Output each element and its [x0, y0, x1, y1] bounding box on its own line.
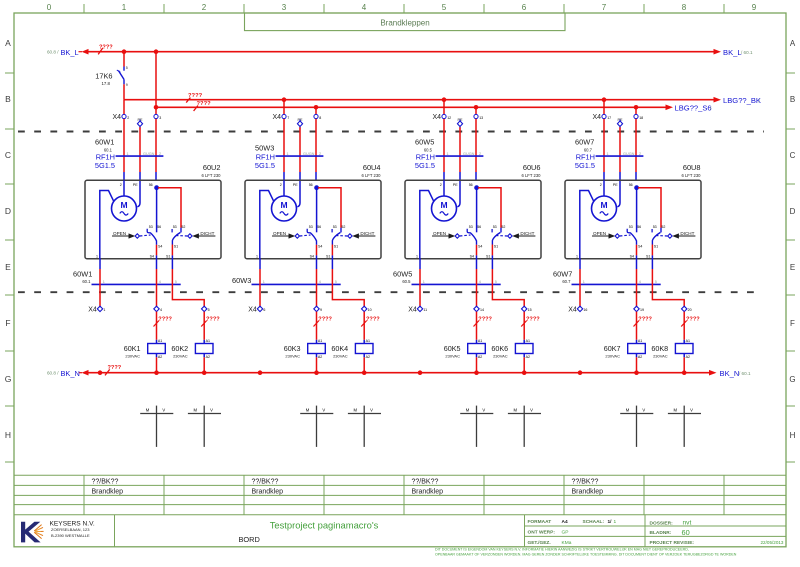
svg-text:6 LFT 230: 6 LFT 230 [361, 173, 381, 178]
wire red X4 to cable entry (motor conductor) [123, 119, 125, 172]
wire red motor return to X4:16 [579, 269, 581, 307]
junction dot bus LBG??_S6 unit 4 [634, 105, 639, 110]
junction dot BK_N (return 1) [98, 370, 103, 375]
svg-text:A1: A1 [318, 339, 322, 343]
svg-text:5G1.5: 5G1.5 [255, 161, 275, 170]
svg-text:X4: X4 [568, 307, 577, 314]
end switch right (dicht) pins 53-52-S1 [172, 225, 185, 248]
block pin labels 2 PE S6 [440, 183, 473, 187]
svg-text:5G1.5: 5G1.5 [95, 161, 115, 170]
svg-text:Brandklep: Brandklep [572, 489, 604, 496]
svg-text:14: 14 [480, 308, 484, 312]
svg-text:0: 0 [47, 3, 52, 12]
svg-text:S1: S1 [166, 255, 170, 259]
svg-text:Brandklep: Brandklep [92, 489, 124, 496]
svg-text:A1: A1 [478, 339, 482, 343]
svg-text:BORD: BORD [239, 535, 260, 544]
svg-text:5: 5 [208, 308, 210, 312]
wire blue stub pin A2 (60K1) [156, 354, 158, 358]
contact cross-reference symbol under 60K8 [668, 406, 701, 447]
svg-text:60K6: 60K6 [491, 344, 508, 353]
cable type RF1H 5G1.5 [255, 153, 275, 171]
svg-text:52: 52 [501, 225, 505, 229]
wire red S1 pin segment [331, 245, 333, 256]
svg-text:??/BK??: ??/BK?? [572, 479, 599, 486]
wire blue S1 through block edge [651, 255, 653, 269]
interruption mark ???? on bus LBG??_S6 [194, 101, 212, 111]
end switch right (dicht) pins 53-52-S1 [492, 225, 505, 248]
svg-text:G: G [789, 375, 795, 384]
svg-text:M: M [626, 407, 630, 412]
OPEN actuator arrow [432, 231, 471, 239]
OPEN actuator arrow [592, 231, 631, 239]
svg-text:????: ???? [686, 317, 700, 323]
svg-text:????: ???? [526, 317, 540, 323]
junction dot BK_N (return 6) [258, 370, 263, 375]
net label right BK_L / 60.1 [723, 48, 753, 57]
wire red PE conductor below terminal [459, 127, 461, 172]
svg-text:BK_N: BK_N [61, 369, 80, 378]
title block vertical dividers [115, 515, 646, 547]
svg-text:S4: S4 [150, 255, 154, 259]
wire red X4 to cable entry (motor conductor) [283, 119, 285, 172]
wire blue S1 through block edge [171, 255, 173, 269]
strip entry ??/BK?? Brandklep 3 [412, 479, 444, 496]
svg-text:2: 2 [479, 152, 481, 156]
svg-text:2: 2 [319, 152, 321, 156]
svg-text:56: 56 [629, 183, 633, 187]
svg-text:PE: PE [453, 183, 458, 187]
svg-text:A2: A2 [318, 355, 322, 359]
wire red motor return to X4:11 [419, 269, 421, 307]
wire red S1 jog to X4:10 [332, 269, 364, 307]
svg-text:PE: PE [293, 183, 298, 187]
svg-text:????: ???? [638, 317, 652, 323]
svg-text:A1: A1 [206, 339, 210, 343]
source arrow left BK_L [79, 49, 89, 55]
contact cross-reference symbol under 60K6 [508, 406, 541, 447]
net label right LBG??_BK [723, 96, 761, 105]
wire red S4 to X4:9 [316, 269, 318, 307]
svg-text:M: M [280, 200, 287, 210]
block bottom pin labels S4 S1 [630, 255, 651, 259]
svg-text:A1: A1 [158, 339, 162, 343]
svg-text:C: C [5, 150, 11, 160]
wire blue S4 through block edge [156, 255, 158, 269]
svg-text:53: 53 [333, 225, 337, 229]
svg-text:S4: S4 [638, 245, 642, 249]
net label left 60.8 / BK_N [47, 369, 80, 378]
junction dot BK_N (60K3) [314, 370, 319, 375]
coil 60K7 230VAC [604, 339, 646, 359]
svg-text:SCHAAL:: SCHAAL: [583, 519, 605, 525]
wire blue stub pin A2 (60K7) [636, 354, 638, 358]
terminal X4:4 [154, 306, 162, 312]
svg-text:5: 5 [442, 3, 447, 12]
junction dot bus LBG??_S6 unit 3 [474, 105, 479, 110]
svg-text:4: 4 [159, 280, 161, 284]
cable line top 60W7 [596, 155, 644, 157]
svg-text:1: 1 [576, 254, 578, 258]
svg-text:DIT DOCUMENT IS EIGENDOM VAN K: DIT DOCUMENT IS EIGENDOM VAN KEYSERS N.V… [435, 548, 689, 552]
interruption mark ???? above 60K3 [314, 317, 333, 327]
svg-text:A2: A2 [158, 355, 162, 359]
terminal X4:7 [272, 114, 289, 121]
svg-text:S4: S4 [158, 245, 162, 249]
wire bus LBG??_S6 [156, 106, 666, 108]
svg-text:S1: S1 [654, 245, 658, 249]
svg-text:????: ???? [478, 317, 492, 323]
cable line top 50W3 [276, 155, 324, 157]
svg-text:A4: A4 [562, 519, 568, 525]
wire red X4 to interruption (60K5) [476, 312, 478, 340]
wire red S1 jog to X4:15 [492, 269, 524, 307]
svg-text:D: D [5, 206, 11, 216]
wire blue motor return hook to pin 1 [580, 191, 594, 259]
wire blue stub pin A1 (60K3) [316, 340, 318, 344]
svg-text:BK_N: BK_N [720, 369, 740, 378]
svg-text:3: 3 [159, 116, 161, 120]
junction dot S6 inside block [314, 185, 319, 190]
target arrow right BK_N [709, 370, 717, 376]
company logo K (Keysers) [21, 522, 44, 543]
svg-text:60W5: 60W5 [415, 137, 434, 146]
svg-text:60K1: 60K1 [124, 344, 141, 353]
svg-text:GUGN: GUGN [143, 152, 155, 156]
side ruler row ticks [5, 73, 795, 462]
svg-text:8: 8 [682, 3, 687, 12]
svg-text:????: ???? [108, 365, 122, 371]
block pin labels 2 PE S6 [600, 183, 633, 187]
cable conductor labels top [287, 152, 322, 156]
terminal X4:13 [474, 114, 483, 119]
svg-text:S4: S4 [310, 255, 314, 259]
wire red X4 to interruption (60K7) [636, 312, 638, 340]
interruption mark ???? on BK_N [105, 365, 122, 375]
svg-text:OPENBAAR GEMAAKT OF VERZONDEN: OPENBAAR GEMAAKT OF VERZONDEN WORDEN. MA… [435, 552, 737, 556]
svg-text:7: 7 [602, 3, 607, 12]
svg-text:LBG??_BK: LBG??_BK [723, 96, 761, 105]
svg-text:M: M [600, 200, 607, 210]
svg-text:F: F [790, 319, 795, 328]
wire red bus to X4 terminal 7 [283, 100, 285, 115]
svg-text:56: 56 [469, 183, 473, 187]
DICHT actuator arrow [656, 231, 695, 239]
svg-text:2: 2 [202, 3, 207, 12]
svg-text:20: 20 [688, 308, 692, 312]
svg-text:S4: S4 [630, 255, 634, 259]
svg-text:230VAC: 230VAC [333, 354, 348, 359]
svg-text:GUGN: GUGN [463, 152, 475, 156]
wire blue stub pin A2 (60K2) [203, 354, 205, 358]
damper actuator block 60U6 [405, 163, 541, 259]
svg-text:H: H [790, 431, 796, 440]
svg-text:E: E [5, 262, 11, 272]
svg-text:GUGN: GUGN [623, 152, 635, 156]
svg-text:M: M [513, 407, 517, 412]
junction dot BK_N (60K7) [634, 370, 639, 375]
motor M~ of 60U2 [112, 196, 137, 221]
wire blue stub pin A1 (60K1) [156, 340, 158, 344]
wire bus BK_L [88, 51, 714, 53]
svg-text:7: 7 [287, 116, 289, 120]
wire blue motor return below block [579, 259, 581, 270]
wire red X4 to cable entry (S6 conductor) [155, 119, 157, 172]
svg-text:1: 1 [103, 280, 105, 284]
DICHT actuator arrow [336, 231, 375, 239]
svg-text:1: 1 [447, 152, 449, 156]
end switch right (dicht) pins 53-52-S1 [652, 225, 665, 248]
wire bus BK_N [88, 372, 710, 374]
wire blue into block pin S6 [315, 172, 317, 180]
interruption mark ???? above 60K1 [154, 317, 173, 327]
svg-text:BLADNR:: BLADNR: [650, 530, 672, 536]
wire blue into block pin 2 [283, 172, 285, 180]
junction dot BK_N (60K5) [474, 370, 479, 375]
svg-text:S4: S4 [478, 245, 482, 249]
svg-text:F: F [5, 318, 10, 328]
svg-text:BK_L: BK_L [723, 48, 742, 57]
svg-text:10: 10 [368, 308, 372, 312]
svg-text:????: ???? [197, 101, 212, 107]
svg-text:4: 4 [319, 280, 321, 284]
target arrow right LBG??_BK [714, 97, 722, 103]
svg-text:OPEN: OPEN [113, 231, 126, 236]
svg-text:1: 1 [423, 280, 425, 284]
svg-text:A1: A1 [526, 339, 530, 343]
wire red motor return to X4:6 [259, 269, 261, 307]
svg-text:1: 1 [614, 519, 617, 525]
svg-text:FORMAAT: FORMAAT [528, 519, 552, 525]
target arrow right LBG??_S6 [666, 105, 674, 111]
junction dot BK_N (60K1) [154, 370, 159, 375]
wire blue into block pin 2 [443, 172, 445, 180]
wire red bus to X4 terminal 18 [635, 107, 637, 114]
svg-text:Testproject paginamacro's: Testproject paginamacro's [270, 519, 379, 530]
svg-text:OPEN: OPEN [273, 231, 286, 236]
wire blue S4 through block edge [636, 255, 638, 269]
cable conductor labels top [607, 152, 642, 156]
svg-text:5: 5 [335, 280, 337, 284]
wire blue stub pin A2 (60K4) [363, 354, 365, 358]
wire blue stub pin A1 (60K8) [683, 340, 685, 344]
svg-text:GUGN: GUGN [303, 152, 315, 156]
cable label bottom 60W1 [73, 270, 92, 285]
block pin labels 2 PE S6 [280, 183, 313, 187]
svg-text:60W1: 60W1 [95, 137, 114, 146]
title block row lines right part [525, 526, 787, 536]
wire blue into block pin 2 [123, 172, 125, 180]
contact cross-reference symbol under 60K5 [460, 406, 493, 447]
svg-text:M: M [353, 407, 357, 412]
end switch left (open) pins 53-56-S4 [467, 225, 482, 248]
svg-text:DICHT: DICHT [680, 231, 694, 236]
cable label bottom 60W7 [553, 270, 572, 285]
interruption mark ???? on bus LBG??_BK [186, 93, 202, 103]
wire red S1 pin segment [491, 245, 493, 256]
svg-text:A: A [5, 38, 11, 48]
svg-text:19: 19 [640, 308, 644, 312]
title field BLADNR 60 [650, 528, 690, 537]
wire blue S6 junction down to left switch [636, 188, 638, 233]
block bottom pin labels S4 S1 [310, 255, 331, 259]
svg-text:nvt: nvt [683, 519, 692, 526]
wire blue stub pin A1 (60K4) [363, 340, 365, 344]
svg-text:S4: S4 [318, 245, 322, 249]
svg-text:60W7: 60W7 [553, 270, 572, 279]
contact cross-reference symbol under 60K1 [140, 406, 173, 447]
wire red PE conductor below terminal [299, 127, 301, 172]
svg-text:A2: A2 [206, 355, 210, 359]
coil 60K8 230VAC [651, 339, 693, 359]
svg-text:2: 2 [120, 183, 122, 187]
strip entry ??/BK?? Brandklep 2 [252, 479, 284, 496]
wire blue stub pin A2 (60K5) [476, 354, 478, 358]
svg-text:230VAC: 230VAC [285, 354, 300, 359]
svg-text:56: 56 [637, 225, 641, 229]
svg-text:17: 17 [607, 116, 611, 120]
cable conductor labels bottom [263, 280, 337, 284]
terminal X4:20 [682, 306, 692, 312]
svg-text:60U2: 60U2 [203, 163, 221, 172]
block bottom pin labels S4 S1 [470, 255, 491, 259]
company name KEYSERS N.V. [50, 520, 95, 538]
svg-text:A2: A2 [638, 355, 642, 359]
junction dot BK_N (60K6) [522, 370, 527, 375]
wire blue PE conductor to motor [617, 172, 620, 207]
svg-text:60.8 /: 60.8 / [47, 371, 59, 376]
block pin labels 2 PE S6 [120, 183, 153, 187]
svg-text:S1: S1 [646, 255, 650, 259]
svg-text:X4: X4 [272, 114, 281, 121]
coil 60K1 230VAC [124, 339, 166, 359]
wire red S6 junction to right switch [638, 188, 661, 228]
cable label 60W1 [95, 137, 114, 152]
wire blue S4 through block edge [476, 255, 478, 269]
end switch right (dicht) pins 53-52-S1 [332, 225, 345, 248]
svg-text:56: 56 [317, 225, 321, 229]
cable line bottom 60W5 [412, 283, 501, 285]
strip entry ??/BK?? Brandklep 1 [92, 479, 124, 496]
wire blue stub pin A2 (60K8) [683, 354, 685, 358]
interruption mark ???? above 60K7 [634, 317, 653, 327]
svg-text:A1: A1 [366, 339, 370, 343]
wire blue PE conductor to motor [297, 172, 300, 207]
wire red 60K3 to bus BK_N [316, 357, 318, 372]
cable label 50W3 [255, 144, 274, 153]
svg-text:5G1.5: 5G1.5 [575, 161, 595, 170]
wire red X4 to interruption (60K4) [363, 312, 365, 340]
svg-text:53: 53 [629, 225, 633, 229]
svg-text:X4: X4 [592, 114, 601, 121]
svg-text:OPEN: OPEN [593, 231, 606, 236]
target arrow right BK_L [714, 49, 722, 55]
svg-text:56: 56 [157, 225, 161, 229]
cable conductor labels top [127, 152, 162, 156]
junction dot BK_N (60K8) [682, 370, 687, 375]
svg-text:56: 56 [149, 183, 153, 187]
svg-text:1: 1 [416, 254, 418, 258]
svg-text:60W1: 60W1 [73, 270, 92, 279]
terminal PE diamond [617, 118, 623, 130]
svg-text:Brandkleppen: Brandkleppen [380, 18, 429, 27]
svg-text:5G1.5: 5G1.5 [415, 161, 435, 170]
svg-text:S4: S4 [470, 255, 474, 259]
interruption mark ???? above 60K6 [521, 317, 540, 327]
svg-text:1: 1 [103, 308, 105, 312]
svg-text:17K6: 17K6 [95, 72, 112, 81]
svg-text:H: H [5, 430, 11, 440]
svg-text:2: 2 [600, 183, 602, 187]
wire blue S6 junction down to left switch [156, 188, 158, 233]
svg-text:DOSSIER:: DOSSIER: [650, 520, 674, 526]
wire blue pin 2 to motor [283, 180, 285, 196]
terminal X4:19 [634, 306, 644, 312]
svg-text:2: 2 [127, 116, 129, 120]
interruption mark ???? above 60K4 [361, 317, 380, 327]
svg-text:13: 13 [479, 116, 483, 120]
svg-text:??/BK??: ??/BK?? [252, 479, 279, 486]
svg-text:6 LFT 230: 6 LFT 230 [681, 173, 701, 178]
wire red S4 to X4:4 [156, 269, 158, 307]
svg-text:22/05/2013: 22/05/2013 [761, 540, 784, 545]
svg-text:4: 4 [479, 280, 481, 284]
title field PROJECT REVISIE + date [650, 540, 784, 546]
wire red 60K7 to bus BK_N [636, 357, 638, 372]
svg-text:V: V [210, 407, 213, 412]
wire blue motor return below block [99, 259, 101, 270]
svg-text:1: 1 [256, 254, 258, 258]
wire red bus to X4 terminal 13 [475, 107, 477, 114]
wire blue into block pin S6 [155, 172, 157, 180]
terminal X4:8 [314, 114, 321, 119]
svg-text:A2: A2 [478, 355, 482, 359]
wire red X4 to cable entry (S6 conductor) [635, 119, 637, 172]
coil 60K2 230VAC [171, 339, 213, 359]
svg-text:????: ???? [188, 93, 203, 99]
svg-text:??/BK??: ??/BK?? [412, 479, 439, 486]
interruption mark ???? on BK_L [98, 45, 113, 55]
wire blue stub pin A1 (60K7) [636, 340, 638, 344]
svg-text:/ 60.1: / 60.1 [739, 371, 751, 376]
junction dot S6 inside block [154, 185, 159, 190]
terminal X4:17 [592, 114, 611, 121]
wire red bus to X4 terminal 3 [155, 107, 157, 114]
wire blue pin 2 to motor [443, 180, 445, 196]
junction dot bus LBG??_BK unit 2 [282, 97, 287, 102]
svg-text:????: ???? [206, 317, 220, 323]
cable line bottom 60W7 [572, 283, 661, 285]
svg-text:60U6: 60U6 [523, 163, 541, 172]
wire blue motor return hook to pin 1 [260, 191, 274, 259]
coil 60K3 230VAC [284, 339, 326, 359]
title strip horizontal lines [14, 475, 786, 515]
wire blue into block pin S6 [475, 172, 477, 180]
svg-text:A: A [790, 39, 796, 48]
svg-text:1/: 1/ [608, 519, 613, 525]
wire blue PE conductor to motor [457, 172, 460, 207]
cable type RF1H 5G1.5 [575, 153, 595, 171]
wire red bus to X4 terminal 17 [603, 100, 605, 115]
svg-text:5: 5 [655, 280, 657, 284]
wire red 60K4 to bus BK_N [363, 357, 365, 372]
motor M~ of 60U4 [272, 196, 297, 221]
svg-text:2: 2 [440, 183, 442, 187]
svg-text:53: 53 [309, 225, 313, 229]
svg-text:G: G [5, 374, 12, 384]
svg-text:1: 1 [607, 152, 609, 156]
svg-text:18: 18 [639, 116, 643, 120]
